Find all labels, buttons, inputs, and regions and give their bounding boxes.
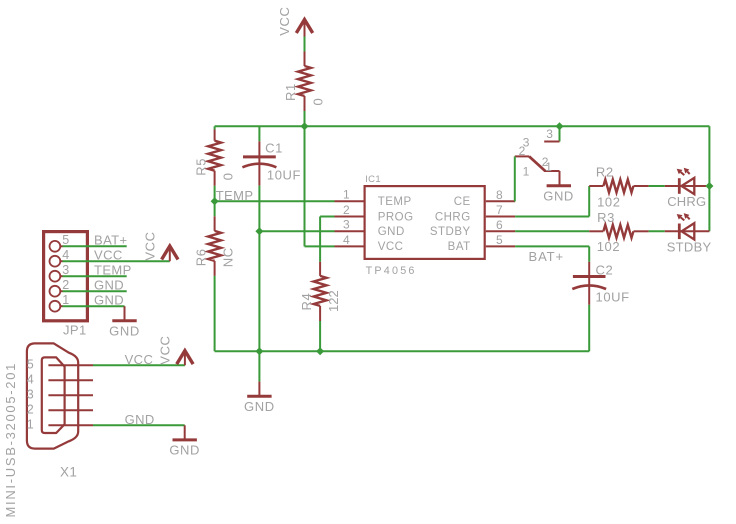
svg-text:1: 1 [523,164,530,178]
svg-text:8: 8 [496,188,503,202]
svg-text:GND: GND [169,443,200,458]
svg-text:NC: NC [220,247,235,267]
svg-text:R3: R3 [597,210,615,225]
svg-text:5: 5 [27,358,34,372]
svg-text:0: 0 [310,98,325,105]
svg-text:GND: GND [378,226,405,238]
svg-text:IC1: IC1 [365,174,381,185]
svg-text:10UF: 10UF [596,290,630,305]
svg-text:STDBY: STDBY [667,239,712,254]
svg-text:GND: GND [94,278,124,293]
svg-text:2: 2 [27,403,34,417]
svg-text:BAT+: BAT+ [529,249,565,264]
svg-text:TP4056: TP4056 [366,265,417,277]
svg-text:4: 4 [343,233,350,247]
svg-text:102: 102 [597,239,621,254]
svg-text:3: 3 [546,127,553,141]
svg-text:3: 3 [27,388,34,402]
svg-text:BAT+: BAT+ [94,233,128,248]
svg-text:6: 6 [496,218,503,232]
svg-text:3: 3 [343,218,350,232]
svg-text:2: 2 [343,203,350,217]
svg-text:X1: X1 [60,465,77,480]
svg-text:5: 5 [62,233,69,247]
svg-text:TEMP: TEMP [378,196,412,208]
svg-text:GND: GND [125,412,155,427]
svg-text:2: 2 [62,278,69,292]
svg-text:CHRG: CHRG [667,194,706,209]
svg-text:2: 2 [519,144,526,158]
svg-text:4: 4 [27,373,34,387]
svg-text:1: 1 [27,418,34,432]
svg-text:1: 1 [545,160,552,174]
svg-text:R1: R1 [283,83,298,101]
svg-text:R2: R2 [596,164,614,179]
svg-text:102: 102 [597,194,621,209]
svg-text:MINI-USB-32005-201: MINI-USB-32005-201 [3,362,18,518]
svg-text:3: 3 [62,263,69,277]
svg-text:JP1: JP1 [63,323,87,338]
svg-text:0: 0 [220,173,235,180]
svg-text:C2: C2 [596,263,614,278]
svg-text:122: 122 [326,290,341,312]
svg-text:GND: GND [244,399,275,414]
svg-text:VCC: VCC [94,248,123,263]
svg-text:PROG: PROG [378,211,414,223]
svg-text:10UF: 10UF [267,168,301,183]
svg-text:7: 7 [496,203,503,217]
svg-text:4: 4 [62,248,69,262]
svg-text:VCC: VCC [378,241,404,253]
svg-text:VCC: VCC [125,352,154,367]
svg-text:CE: CE [454,196,471,208]
svg-text:GND: GND [543,189,574,204]
svg-text:5: 5 [496,233,503,247]
svg-text:C1: C1 [265,140,283,155]
svg-text:1: 1 [62,293,69,307]
svg-text:VCC: VCC [277,7,292,36]
svg-text:VCC: VCC [142,231,157,260]
svg-text:R5: R5 [193,158,208,176]
svg-text:TEMP: TEMP [94,263,132,278]
svg-text:STDBY: STDBY [430,226,471,238]
svg-text:GND: GND [109,324,140,339]
svg-text:BAT: BAT [448,241,471,253]
svg-text:R6: R6 [193,248,208,266]
svg-text:VCC: VCC [157,335,172,364]
svg-text:R4: R4 [299,293,314,311]
svg-text:CHRG: CHRG [435,211,471,223]
svg-text:1: 1 [343,188,350,202]
svg-text:GND: GND [94,293,124,308]
